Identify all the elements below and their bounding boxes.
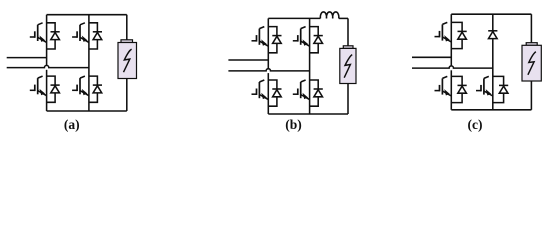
IGBT S3b: gate lead [252, 93, 257, 95]
battery Ba: lightning bolt [124, 49, 132, 72]
IGBT S1b: gate bar [256, 35, 258, 42]
left leg vertical (upper) [267, 18, 269, 68]
IGBT S3b: collector stroke [259, 80, 264, 82]
inductor L [320, 12, 338, 18]
IGBT S4b: collector/emitter jogs [310, 80, 319, 106]
IGBT S3b: gate bar [256, 89, 258, 96]
freewheel diode of S3a: triangle [51, 86, 60, 93]
IGBT S4b: gate bar [297, 89, 299, 96]
left leg vertical (lower) [450, 70, 452, 110]
battery Bb: cap terminal [343, 46, 353, 49]
IGBT S4b: collector stroke [301, 80, 306, 82]
IGBT S3a: collector stroke [38, 76, 43, 78]
AC input line lower with crossover hop [228, 69, 309, 71]
IGBT S1a: emitter stroke [38, 37, 47, 42]
IGBT S4a: collector/emitter jogs [89, 76, 98, 102]
battery Bb: body [340, 48, 356, 83]
IGBT S1a: emitter arrow [40, 37, 44, 42]
IGBT S1b: collector stroke [259, 27, 264, 29]
IGBT S3b: emitter arrow [262, 94, 266, 99]
AC input line lower with crossover hop [7, 65, 89, 67]
left leg vertical (upper) [450, 14, 452, 66]
IGBT S1b: emitter stroke [259, 41, 268, 46]
IGBT S1a: collector stroke [38, 23, 43, 25]
IGBT S4b: body bar [300, 82, 302, 98]
freewheel diode of S3b: cathode bar [272, 88, 281, 90]
freewheel diode of S1b: cathode bar [272, 35, 281, 37]
freewheel diode of S2a: cathode bar [93, 31, 102, 33]
IGBT S1c: gate bar [439, 31, 441, 38]
battery negative lead [347, 84, 349, 115]
battery Bc: body [522, 45, 541, 81]
IGBT S1a: collector/emitter jogs [47, 23, 56, 49]
AC input line upper [7, 57, 47, 59]
AC input line lower with crossover hop [412, 66, 493, 68]
IGBT S3c: collector stroke [442, 76, 447, 78]
IGBT S2b: collector/emitter jogs [310, 27, 319, 53]
IGBT S1c: emitter arrow [445, 36, 449, 41]
IGBT S1c: collector stroke [442, 22, 447, 24]
IGBT S2b: emitter arrow [303, 41, 307, 46]
IGBT S2a: collector stroke [80, 23, 85, 25]
IGBT S4c: collector/emitter jogs [493, 76, 504, 102]
left leg vertical (upper) [46, 15, 48, 66]
right leg vertical [88, 15, 90, 111]
IGBT S2a: gate lead [72, 36, 77, 38]
freewheel diode of S3a: cathode bar [51, 84, 60, 86]
left leg vertical (lower) [46, 70, 48, 111]
IGBT S3c: gate bar [439, 85, 441, 92]
battery negative lead [126, 79, 128, 112]
bottom DC bus wire [47, 110, 127, 112]
IGBT S1b: body bar [258, 29, 260, 45]
IGBT S4a: collector stroke [80, 76, 85, 78]
IGBT S4a: gate bar [76, 85, 78, 92]
left leg vertical (lower) [267, 73, 269, 114]
bottom DC bus wire [451, 109, 531, 111]
IGBT S2b: emitter stroke [301, 41, 310, 46]
IGBT S4b: emitter stroke [301, 95, 310, 100]
battery positive lead [126, 15, 128, 40]
IGBT S4c: gate lead [476, 90, 481, 92]
freewheel diode of S2b: triangle [314, 36, 323, 43]
freewheel diode of S3c: cathode bar [458, 84, 467, 86]
IGBT S4c: collector stroke [484, 76, 489, 78]
battery Ba: body [118, 43, 137, 79]
freewheel diode of S4c: triangle [499, 86, 508, 93]
IGBT S1b: gate lead [252, 40, 257, 42]
IGBT S2a: collector/emitter jogs [89, 23, 98, 49]
IGBT S3c: body bar [441, 78, 443, 94]
freewheel diode of S2b: cathode bar [314, 35, 323, 37]
svg-text:(b): (b) [285, 117, 302, 132]
IGBT S3a: emitter arrow [40, 90, 44, 95]
IGBT S1a: body bar [37, 25, 39, 41]
freewheel diode of S1b: triangle [273, 36, 282, 43]
IGBT S2a: emitter stroke [80, 37, 89, 42]
bottom DC bus wire [268, 113, 348, 115]
IGBT S4a: body bar [79, 78, 81, 94]
battery negative lead [530, 81, 532, 110]
IGBT S3a: body bar [37, 78, 39, 94]
freewheel diode of S4b: cathode bar [314, 88, 323, 90]
AC input line upper [228, 59, 268, 61]
IGBT S3a: collector/emitter jogs [47, 76, 56, 102]
battery Bc: lightning bolt [528, 52, 536, 75]
diode Dc: triangle [489, 32, 498, 39]
IGBT S3c: collector/emitter jogs [451, 76, 462, 102]
battery Bc: cap terminal [526, 43, 537, 46]
freewheel diode of S4c: cathode bar [499, 84, 508, 86]
IGBT S3c: gate lead [435, 90, 440, 92]
top DC bus wire (left part) [268, 17, 320, 19]
IGBT S1c: gate lead [435, 36, 440, 38]
IGBT S1a: gate lead [30, 36, 35, 38]
freewheel diode of S3c: triangle [458, 86, 467, 93]
IGBT S3c: emitter arrow [445, 90, 449, 95]
IGBT S3a: gate bar [34, 85, 36, 92]
IGBT S4a: gate lead [72, 89, 77, 91]
IGBT S2b: gate bar [297, 35, 299, 42]
IGBT S1c: emitter stroke [442, 37, 451, 42]
AC input line upper [412, 56, 451, 58]
top DC bus wire [47, 14, 127, 16]
diode Dc: cathode bar [488, 30, 497, 32]
svg-text:(a): (a) [64, 117, 80, 132]
freewheel diode of S4a: triangle [93, 86, 102, 93]
freewheel diode of S3b: triangle [273, 90, 282, 97]
IGBT S4a: emitter stroke [80, 91, 89, 96]
IGBT S4c: body bar [483, 78, 485, 94]
IGBT S3b: emitter stroke [259, 95, 268, 100]
freewheel diode of S1a: cathode bar [51, 31, 60, 33]
IGBT S1c: collector/emitter jogs [451, 22, 462, 48]
IGBT S3c: emitter stroke [442, 91, 451, 96]
battery Ba: cap terminal [121, 40, 133, 43]
IGBT S1b: emitter arrow [262, 41, 266, 46]
IGBT S2a: gate bar [76, 31, 78, 38]
freewheel diode of S1c: cathode bar [458, 30, 467, 32]
IGBT S2b: gate lead [293, 40, 298, 42]
IGBT S4c: emitter stroke [484, 91, 493, 96]
IGBT S1c: body bar [441, 24, 443, 40]
freewheel diode of S1a: triangle [51, 33, 60, 40]
right leg vertical [492, 14, 494, 110]
freewheel diode of S1c: triangle [458, 32, 467, 39]
freewheel diode of S4a: cathode bar [93, 84, 102, 86]
IGBT S4a: emitter arrow [83, 90, 87, 95]
freewheel diode of S4b: triangle [314, 90, 323, 97]
top DC bus wire (right part) [339, 17, 348, 19]
IGBT S1b: collector/emitter jogs [268, 27, 277, 53]
IGBT S4c: gate bar [480, 85, 482, 92]
battery positive lead [347, 18, 349, 45]
battery Bb: lightning bolt [344, 55, 352, 78]
top DC bus wire [451, 13, 531, 15]
IGBT S2b: collector stroke [301, 27, 306, 29]
IGBT S2a: body bar [79, 25, 81, 41]
IGBT S4b: emitter arrow [303, 94, 307, 99]
IGBT S3a: emitter stroke [38, 91, 47, 96]
IGBT S2a: emitter arrow [83, 37, 87, 42]
IGBT S1a: gate bar [34, 31, 36, 38]
right leg vertical [309, 18, 311, 114]
IGBT S4c: emitter arrow [487, 90, 491, 95]
IGBT S3a: gate lead [30, 89, 35, 91]
battery positive lead [530, 14, 532, 43]
freewheel diode of S2a: triangle [93, 33, 102, 40]
svg-text:(c): (c) [468, 117, 483, 132]
IGBT S3b: body bar [258, 82, 260, 98]
IGBT S2b: body bar [300, 29, 302, 45]
IGBT S3b: collector/emitter jogs [268, 80, 277, 106]
IGBT S4b: gate lead [293, 93, 298, 95]
